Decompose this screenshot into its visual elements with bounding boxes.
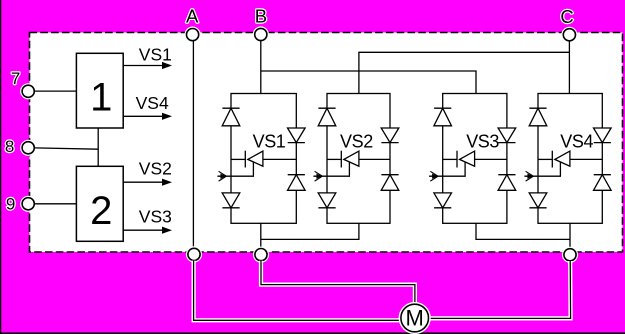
input terminal 9 <box>22 198 34 210</box>
converter enclosure (dashed box) <box>30 33 623 253</box>
thyristor module VS3 frame <box>443 94 507 224</box>
svg-text:VS3: VS3 <box>466 131 499 151</box>
input terminal 7 <box>22 85 34 97</box>
svg-text:VS4: VS4 <box>136 93 169 113</box>
svg-text:VS1: VS1 <box>139 45 172 65</box>
diode VS2 lower-left <box>318 193 336 208</box>
wire module VS1 bottom to output terminal <box>260 223 262 249</box>
diode VS1 upper-left <box>222 108 240 126</box>
motor M <box>401 304 429 332</box>
svg-text:2: 2 <box>90 189 112 233</box>
wire terminal 9 to block 2 <box>34 203 76 205</box>
thyristor module VS1 frame <box>231 94 296 224</box>
thyristor VS1 <box>231 151 296 168</box>
diode VS2 lower-right <box>381 175 399 191</box>
wire C to module VS2 <box>359 52 570 93</box>
thyristor module VS2 frame <box>327 94 390 224</box>
output arrow VS4 <box>123 113 172 120</box>
svg-text:C: C <box>560 6 573 27</box>
wire A to bottom terminal <box>192 41 194 249</box>
gate input VS4 <box>524 162 560 181</box>
wire module VS4 bottom to output terminal <box>569 223 571 249</box>
thyristor module VS4 frame <box>538 94 602 224</box>
diode VS3 upper-right <box>498 128 516 143</box>
svg-text:8: 8 <box>5 137 14 156</box>
svg-text:9: 9 <box>6 195 15 214</box>
wire terminal 7 to block 1 <box>34 90 76 92</box>
wire block 1 to block 2 <box>97 128 99 166</box>
output arrow VS1 <box>123 62 172 69</box>
diode VS1 lower-left <box>222 193 240 208</box>
diode VS4 upper-right <box>594 128 612 143</box>
wire middle terminal to motor top <box>261 261 415 304</box>
gate input VS2 <box>313 162 349 181</box>
wire B to module VS3 <box>261 71 476 94</box>
terminal B <box>255 28 267 40</box>
output arrow VS2 <box>123 179 172 186</box>
svg-text:A: A <box>186 5 199 26</box>
control block 2 <box>76 166 123 241</box>
diode VS1 upper-right <box>288 128 306 143</box>
diode VS2 upper-right <box>381 128 399 143</box>
wire module VS2 bottom to VS1 bottom bus <box>261 223 359 239</box>
svg-text:7: 7 <box>11 69 20 88</box>
terminal A <box>187 28 199 40</box>
svg-text:VS3: VS3 <box>139 206 172 226</box>
input terminal 8 <box>22 142 34 154</box>
output terminal middle <box>255 249 267 261</box>
gate input VS3 <box>429 162 465 181</box>
diode VS3 lower-left <box>434 193 452 208</box>
svg-text:M: M <box>406 306 424 331</box>
output arrow VS3 <box>123 227 172 234</box>
wire terminal 8 to block connector <box>34 148 98 149</box>
gate input VS1 <box>217 162 253 181</box>
svg-text:VS4: VS4 <box>560 131 593 151</box>
diode VS3 lower-right <box>498 175 516 191</box>
svg-text:VS1: VS1 <box>253 131 286 151</box>
diode VS3 upper-left <box>434 108 452 126</box>
wire module VS3 bottom to VS4 bottom bus <box>476 223 570 239</box>
wire C to module VS4 <box>568 41 570 94</box>
output terminal left (phase A) <box>188 248 200 260</box>
thyristor VS3 <box>443 151 507 168</box>
diode VS4 lower-left <box>529 193 547 208</box>
control block 1 <box>76 53 123 128</box>
thyristor VS4 <box>538 151 602 168</box>
diode VS2 upper-left <box>318 108 336 126</box>
terminal C <box>563 29 575 41</box>
thyristor VS2 <box>327 151 390 168</box>
diode VS4 lower-right <box>594 175 612 191</box>
output terminal right <box>564 249 576 261</box>
svg-text:B: B <box>255 5 267 26</box>
svg-text:VS2: VS2 <box>340 131 373 151</box>
wire B to module VS1 <box>260 41 262 94</box>
svg-text:VS2: VS2 <box>139 159 172 179</box>
diode VS4 upper-left <box>529 108 547 126</box>
wire right terminal to motor <box>429 261 571 318</box>
diode VS1 lower-right <box>288 175 306 191</box>
svg-text:1: 1 <box>90 75 112 119</box>
wire left terminal to motor <box>194 261 402 321</box>
